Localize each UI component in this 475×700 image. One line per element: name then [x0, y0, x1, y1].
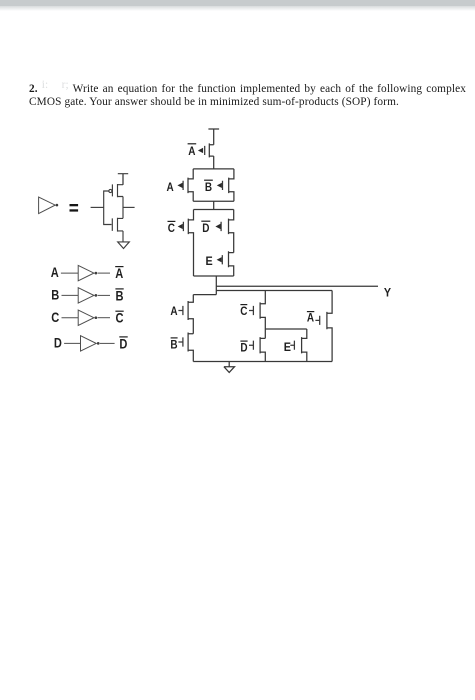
svg-text:C: C	[168, 221, 175, 235]
svg-text:A: A	[51, 265, 59, 280]
equals sign	[70, 204, 79, 212]
transistor E PMOS pull-up	[206, 251, 234, 276]
transistor Abar NMOS pull-down	[307, 291, 332, 362]
transistor A NMOS pull-down	[170, 295, 193, 334]
VDD rail (complex gate)	[208, 129, 219, 145]
svg-text:B: B	[51, 288, 59, 303]
svg-text:D: D	[54, 336, 62, 351]
transistor Abar PMOS pull-up	[188, 143, 214, 158]
buffer gate C	[51, 310, 123, 326]
transistor E NMOS pull-down	[284, 329, 307, 362]
svg-text:A: A	[170, 304, 177, 318]
VDD rail (inverter)	[118, 174, 128, 185]
svg-text:A: A	[167, 180, 174, 194]
wire box1 to box2	[213, 201, 215, 209]
transistor P1 PMOS of inverter	[109, 184, 123, 197]
wire to Y output	[216, 285, 378, 287]
svg-text:E: E	[206, 254, 213, 268]
svg-text:D: D	[202, 221, 209, 235]
svg-text:D: D	[119, 336, 127, 351]
buffer gate D	[54, 336, 128, 352]
transistor Dbar PMOS pull-up	[201, 210, 233, 253]
wire E branch top	[265, 328, 307, 330]
transistor Bbar NMOS pull-down	[170, 333, 193, 362]
buffer gate B	[51, 288, 123, 304]
svg-text:C: C	[116, 311, 124, 326]
pull-down network top edge	[193, 291, 332, 295]
pull-up series box C/D/E outline	[194, 210, 234, 277]
transistor Cbar NMOS pull-down	[240, 291, 265, 339]
pull-up parallel box A / Bbar outline	[193, 169, 234, 201]
svg-text:D: D	[240, 340, 247, 354]
pull-down network bottom edge	[193, 361, 332, 363]
svg-text:B: B	[205, 180, 212, 194]
output wire	[123, 206, 135, 208]
svg-text:B: B	[170, 338, 177, 352]
svg-text:C: C	[51, 310, 59, 325]
ground (complex gate)	[224, 362, 235, 373]
svg-text:A: A	[188, 144, 195, 158]
wire NMOS source	[122, 231, 124, 242]
svg-text:C: C	[240, 304, 247, 318]
svg-text:E: E	[284, 340, 291, 354]
svg-text:Y: Y	[384, 286, 391, 300]
gate connector wire	[104, 191, 112, 225]
wire box2 to output node	[215, 276, 217, 295]
transistor A PMOS pull-up	[167, 169, 194, 201]
svg-text:A: A	[307, 311, 314, 325]
inverter symbol	[39, 197, 59, 214]
transistor Cbar PMOS pull-up	[168, 210, 194, 277]
svg-text:A: A	[115, 266, 123, 281]
transistor Bbar PMOS pull-up	[204, 169, 234, 201]
wire PMOS drain to NMOS drain	[122, 174, 124, 219]
buffer gate A	[51, 265, 124, 281]
input wire	[91, 206, 104, 208]
wire Abar to box1	[213, 156, 215, 169]
transistor Dbar NMOS pull-down	[240, 337, 265, 361]
ground (inverter)	[118, 242, 130, 249]
svg-text:B: B	[116, 288, 124, 303]
transistor N1 NMOS of inverter	[112, 218, 123, 232]
